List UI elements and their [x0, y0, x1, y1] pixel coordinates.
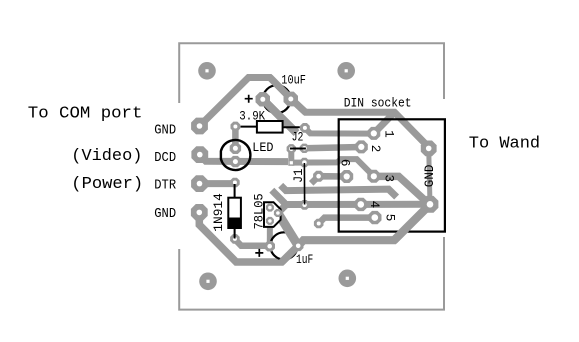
pad DIN 4: [354, 198, 367, 211]
pad 1uF right: [293, 241, 304, 252]
pad DIN 5: [368, 211, 381, 224]
svg-text:6: 6: [338, 159, 352, 167]
jumper J1 wire: [303, 163, 305, 205]
pad square IC pin1: [288, 160, 294, 166]
LED D2 outline: [221, 140, 250, 170]
svg-text:3: 3: [382, 175, 396, 183]
wire square pad to J1 top to DIN pad3: [292, 159, 374, 176]
wire over 10uF left arc: [263, 99, 297, 133]
wire over DIN rect bottom: [394, 204, 430, 240]
pad diode bottom: [230, 234, 240, 244]
resistor R1 body: [257, 121, 283, 133]
capacitor C2 1uF outline: [270, 232, 297, 259]
wire over 1uF bottom right arc: [282, 246, 298, 262]
svg-text:LED: LED: [252, 141, 273, 155]
svg-text:5: 5: [383, 214, 397, 222]
pad 10uF right redraw: [284, 92, 298, 106]
svg-text:4: 4: [367, 201, 381, 209]
pad bus 5: [314, 219, 324, 229]
mounting hole top-left: [198, 62, 216, 80]
pad GND2: [191, 204, 208, 221]
svg-text:1N914: 1N914: [212, 193, 226, 232]
diode D1 leads: [234, 184, 236, 239]
svg-text:DTR: DTR: [154, 177, 176, 193]
pad J2 right: [300, 144, 309, 153]
pad DIN 1: [367, 127, 380, 140]
wire pad to DIN pad5: [319, 218, 375, 224]
wire row A: C10 right to DIN GND top: [291, 99, 430, 149]
wire row B: R right to DIN pad1: [305, 128, 374, 134]
pad 78L05 pin1: [266, 204, 274, 212]
pad DTR: [191, 175, 208, 192]
pad DIN 3: [367, 170, 380, 183]
pad J1 top: [300, 158, 309, 167]
wire DCD to LED bottom to square pad: [200, 155, 288, 161]
svg-text:10uF: 10uF: [281, 73, 306, 87]
jumper J2 bar: [290, 148, 306, 150]
text plus 10uF: [245, 95, 253, 103]
pad DIN 6: [340, 170, 353, 183]
pad DCD: [191, 146, 208, 163]
mounting hole top-right: [337, 62, 355, 80]
pad DIN GND top: [421, 141, 437, 157]
svg-text:GND: GND: [423, 165, 437, 188]
svg-text:DCD: DCD: [154, 150, 176, 166]
board outline: [179, 43, 444, 309]
pad 78L05 pin2: [274, 209, 282, 217]
pad GND1: [191, 118, 208, 135]
svg-text:78L05: 78L05: [253, 193, 267, 229]
pad DIN GND bottom: [422, 196, 439, 213]
svg-text:2: 2: [368, 145, 382, 153]
pad 78L05 pin3: [266, 217, 274, 225]
svg-text:(Video): (Video): [71, 147, 142, 166]
pad 10uF left: [256, 92, 270, 106]
capacitor C1 10uF outline: [263, 85, 291, 113]
wire GND2 to 1uF right: [199, 212, 298, 262]
mounting hole bottom-left: [199, 273, 217, 291]
wire branch to DIN pad1: [374, 112, 395, 133]
pad LED bottom: [230, 156, 241, 167]
diode D1 body: [228, 198, 241, 228]
wire 78L05 pad3 to row G: [270, 204, 287, 221]
wire C10 left diagonal: [263, 99, 297, 133]
text plus 1uF: [255, 249, 263, 257]
svg-text:To COM port: To COM port: [28, 105, 143, 124]
pad bus E: [313, 171, 324, 182]
svg-text:1: 1: [381, 130, 395, 138]
wire DTR to diode top: [200, 180, 235, 187]
resistor R1 leads: [241, 126, 300, 129]
svg-text:J1: J1: [292, 169, 306, 184]
pad LED top: [230, 143, 241, 154]
wire row E: stub, pad to DIN pad6: [311, 176, 347, 183]
pad J1 bottom: [300, 200, 310, 210]
pad 10uF left redraw: [256, 92, 270, 106]
DIN socket outline: [339, 119, 445, 231]
wire GND1 to C10 right: [200, 78, 292, 127]
wire 78L05 pad3 down to 1uF left: [267, 221, 273, 246]
pad diode top: [230, 178, 240, 188]
pad R right: [300, 123, 310, 133]
wire bottom power to DIN GND bottom: [298, 204, 430, 246]
mounting hole bottom-right: [339, 270, 357, 288]
wire LED top to resistor left: [232, 127, 239, 149]
svg-text:To Wand: To Wand: [469, 135, 540, 154]
wire row C: J2 right to DIN pad2: [304, 147, 361, 148]
wire DIN pad3 to DIN GND bottom: [374, 176, 429, 204]
svg-text:GND: GND: [154, 123, 176, 139]
svg-text:GND: GND: [154, 206, 176, 222]
svg-text:1uF: 1uF: [296, 253, 313, 267]
svg-text:DIN socket: DIN socket: [344, 97, 412, 111]
wire over 10uF right arc: [270, 78, 306, 113]
pad 1uF left: [264, 241, 275, 252]
regulator U1 78L05 body: [264, 202, 281, 227]
svg-text:3.9K: 3.9K: [239, 110, 265, 124]
svg-text:J2: J2: [292, 131, 304, 145]
diode D1 cathode band: [228, 218, 241, 229]
wire diode bottom to 1uF left: [235, 239, 270, 246]
pad DIN 2: [355, 140, 368, 153]
wire 78L05 pad2 to 1uF right over circle: [278, 213, 298, 246]
pad 10uF right: [284, 92, 298, 106]
wire row G: through J1 bottom, DIN pad4, to GND bottom: [285, 201, 430, 208]
wire J2 left stub down: [288, 149, 294, 162]
svg-text:(Power): (Power): [71, 175, 143, 194]
wire row F: [281, 185, 397, 197]
pad R left: [231, 122, 241, 132]
pad J2 left: [287, 144, 296, 153]
wire row G diagonal upper: [272, 190, 285, 203]
wire GND vertical in DIN: [429, 148, 430, 204]
